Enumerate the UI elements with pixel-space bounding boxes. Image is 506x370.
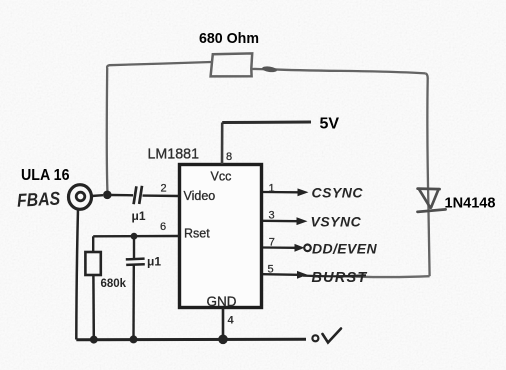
wire: junction down to capacitor C2 [133,236,135,258]
capacitor C2 (shunt, plates) [126,257,145,260]
svg-text:DD/EVEN: DD/EVEN [312,241,378,257]
wire: burst strike-through continuation [303,274,366,277]
wire: R2 bottom to ground [92,275,95,339]
wire: connector to junction [92,194,104,197]
capacitor C1 (series coupling, plates) [134,186,137,204]
svg-text:1: 1 [269,183,275,195]
wire: Rset corner down to resistor R2 [92,236,94,252]
svg-text:ULA 16: ULA 16 [21,167,70,184]
arrowhead pin 5 [297,271,308,279]
svg-text:2: 2 [161,183,167,195]
connector J1 FBAS input (phono jack symbol) [69,185,92,210]
svg-text:LM1881: LM1881 [148,147,200,163]
wire: top feedback vertical from 680 Ohm loop down to video input node [106,68,109,194]
node: ground dot at C2 [130,335,138,343]
wire: pin 3 VSYNC output [263,220,297,223]
node: Rset junction dot [131,233,138,240]
resistor R2 680k [85,252,100,275]
wire: right-side vertical from top corner down through diode to burst line [425,73,429,276]
svg-text:5: 5 [268,264,274,276]
svg-text:μ1: μ1 [147,255,161,269]
wire: junction to capacitor C1 [111,194,133,197]
wire: top horizontal from corner to resistor R1 left lead [107,62,211,68]
svg-text:5V: 5V [320,116,340,133]
wire: from resistor R1 right lead toward top-right corner [252,69,425,73]
svg-text:Video: Video [184,189,216,203]
svg-text:8: 8 [226,151,232,163]
svg-text:1N4148: 1N4148 [445,194,496,211]
wire: Rset pin 6 line to left [93,235,179,238]
wire: C1 to pin 2 [143,194,180,197]
junction blob on wire right of R1 [262,66,278,73]
wire: pin 7 ODD/EVEN output [263,246,295,249]
wire: bottom-right horizontal from corner left to BURST output [344,275,430,278]
wire: pin 8 Vcc lead up from IC [221,123,224,165]
arrowhead pin 3 [297,217,308,225]
diode D1 1N4148 [418,189,446,212]
arrowhead pin 7 [295,244,305,252]
svg-text:μ1: μ1 [132,209,146,223]
svg-text:FBAS: FBAS [17,187,62,210]
svg-text:680k: 680k [101,278,127,290]
svg-text:BURST: BURST [312,270,368,286]
svg-text:CSYNC: CSYNC [312,185,364,201]
svg-text:GND: GND [207,294,237,309]
wire: pin 1 CSYNC output [263,191,298,194]
net label 0V (handwritten circle + check) [312,335,318,341]
arrowhead pin 1 [298,188,309,196]
wire: ground rail [76,338,306,342]
svg-text:Rset: Rset [184,226,210,240]
svg-text:4: 4 [228,315,235,327]
wire: pin 5 BURST output [263,273,298,276]
wire: 5V supply horizontal [222,121,311,125]
node: input junction dot [103,191,112,200]
resistor R1 680 Ohm (hand-drawn box) [211,53,253,76]
wire: C2 bottom to ground [132,265,135,339]
svg-text:3: 3 [269,210,275,222]
svg-text:680 Ohm: 680 Ohm [199,30,259,47]
wire: connector sleeve down to ground [76,209,78,340]
svg-text:VSYNC: VSYNC [311,214,362,230]
node: ground dot at pin 4 [218,335,228,345]
svg-text:Vcc: Vcc [211,170,232,184]
IC U1 LM1881 body [180,165,262,308]
svg-text:7: 7 [269,237,275,249]
wire: pin 4 GND lead [222,308,225,340]
node: ground dot at R2 [90,336,98,344]
svg-text:6: 6 [160,221,166,233]
inversion circle on ODD/EVEN [304,245,311,252]
